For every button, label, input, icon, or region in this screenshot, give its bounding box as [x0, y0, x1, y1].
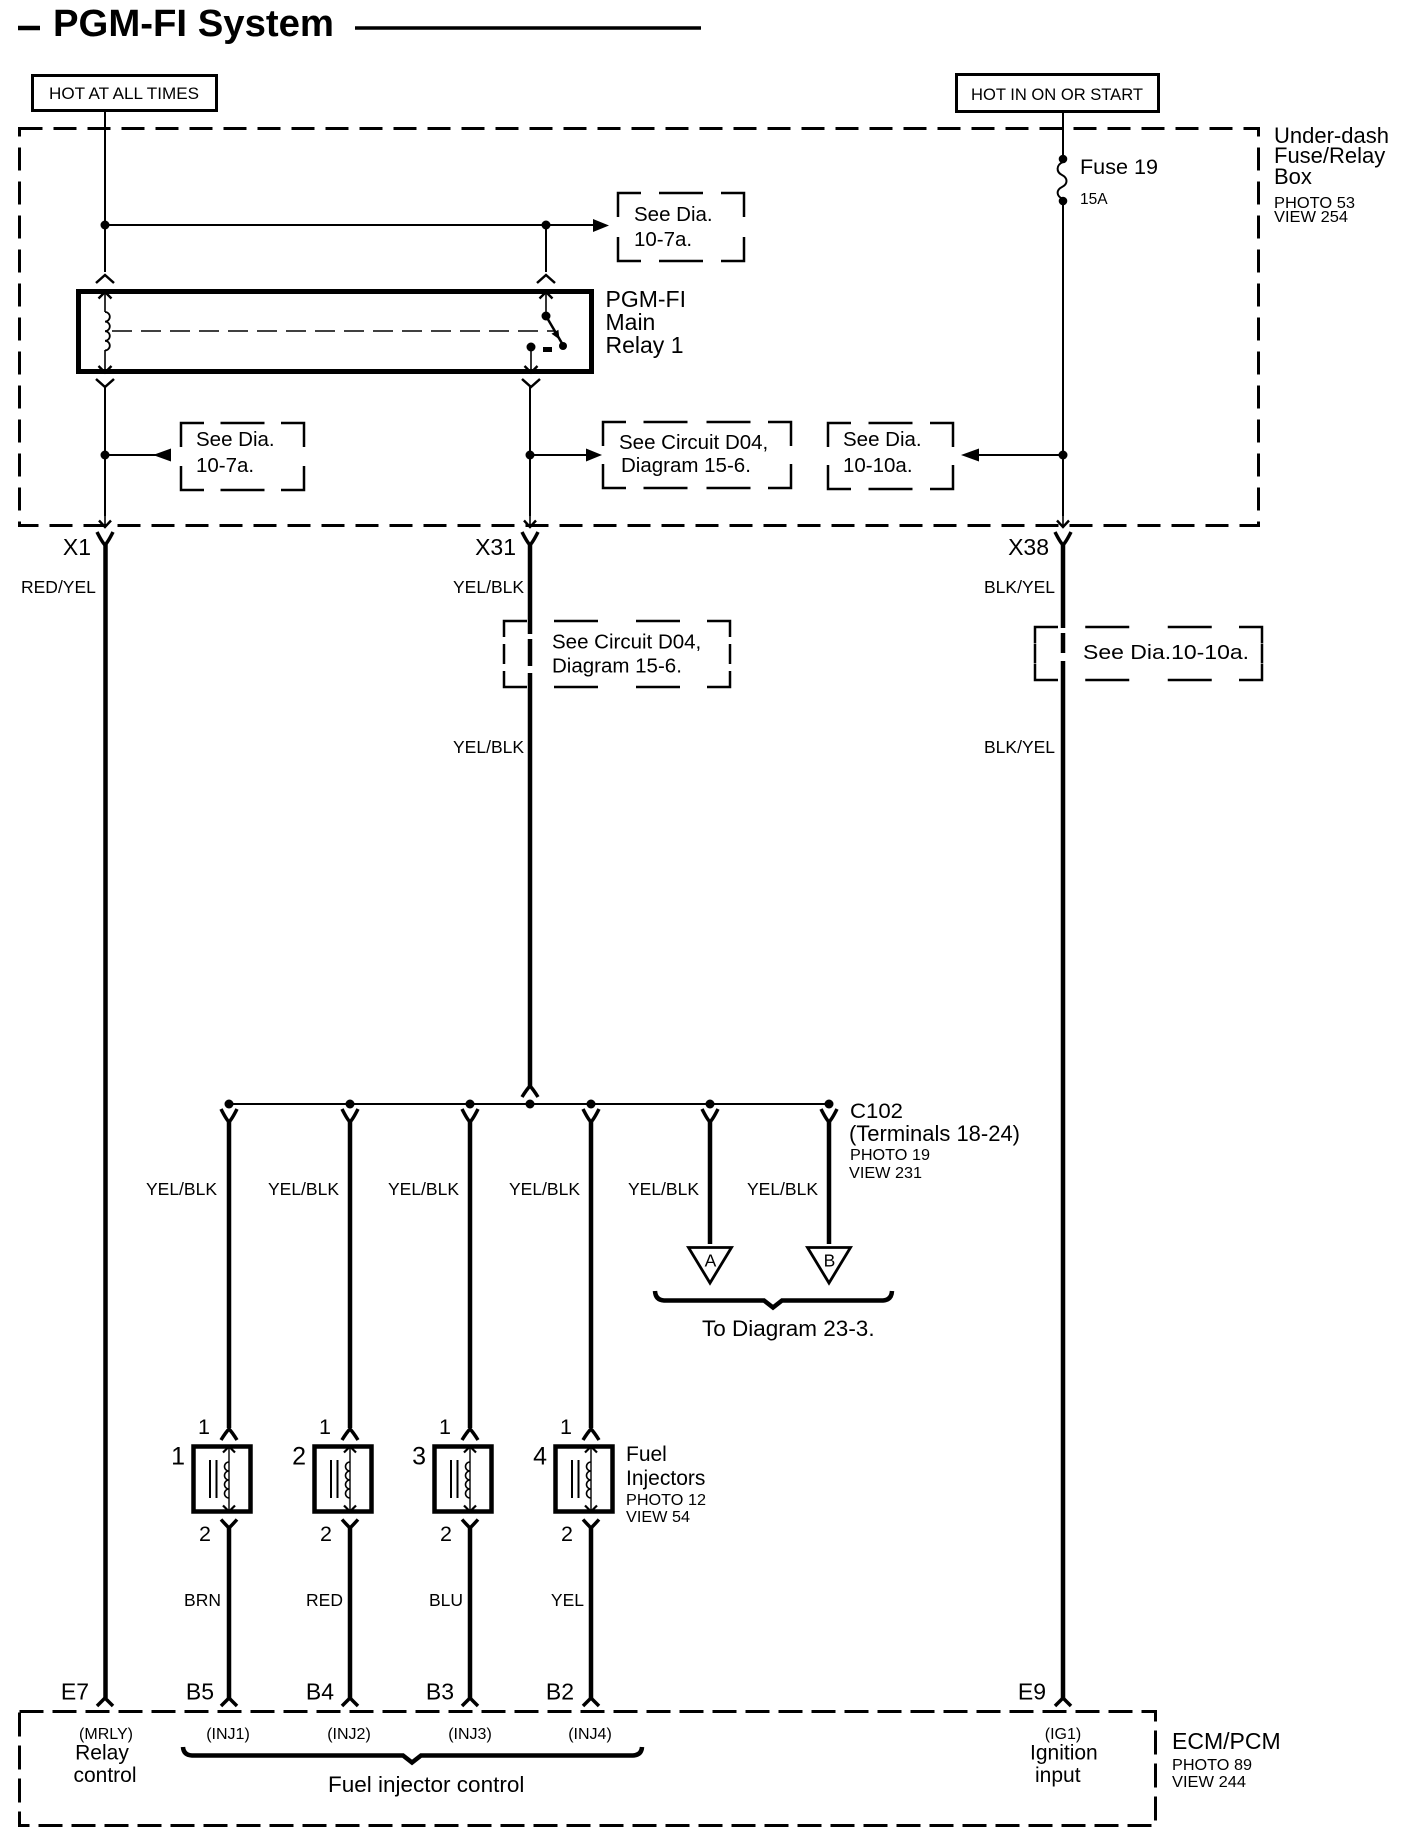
- svg-text:See Circuit D04,: See Circuit D04,: [552, 631, 701, 654]
- wire: YEL/BLK drop at x=470: [468, 1120, 473, 1428]
- svg-text:control: control: [73, 1764, 136, 1787]
- svg-text:2: 2: [292, 1443, 306, 1471]
- label: (IG1) Ignition input: [1030, 1726, 1098, 1787]
- svg-text:See Circuit D04,: See Circuit D04,: [619, 431, 768, 454]
- connector terminal X38 symbol: [1055, 532, 1071, 545]
- svg-text:YEL/BLK: YEL/BLK: [509, 1179, 580, 1199]
- relay switch movable arm: [546, 316, 563, 345]
- label box: HOT IN ON OR START: [957, 75, 1159, 112]
- connector terminal X1 symbol: [97, 532, 113, 545]
- wire: injector 3 output down to ECM: [468, 1526, 473, 1698]
- svg-text:VIEW 231: VIEW 231: [849, 1165, 922, 1182]
- svg-text:3: 3: [412, 1443, 426, 1471]
- wire: X1 trunk RED/YEL down to ECM E7: [103, 543, 108, 1698]
- svg-text:See Dia.: See Dia.: [843, 428, 922, 451]
- svg-text:E9: E9: [1018, 1679, 1046, 1705]
- label: (MRLY) Relay control: [73, 1726, 136, 1787]
- branch wire with arrowhead to See Circuit D04 box: [530, 454, 588, 456]
- wire: YEL/BLK drop at x=829: [827, 1120, 832, 1244]
- svg-text:2: 2: [561, 1522, 573, 1546]
- bus drop connector chevron 5: [702, 1109, 718, 1122]
- svg-text:Box: Box: [1274, 164, 1312, 189]
- svg-text:BLK/YEL: BLK/YEL: [984, 737, 1055, 757]
- svg-text:RED: RED: [306, 1590, 343, 1610]
- svg-text:B2: B2: [546, 1679, 574, 1705]
- svg-text:To Diagram 23-3.: To Diagram 23-3.: [702, 1316, 875, 1341]
- svg-text:(IG1): (IG1): [1045, 1726, 1081, 1743]
- injector 1 coil: [225, 1462, 230, 1498]
- injector 3 top connector chevron (pin 1): [462, 1429, 478, 1440]
- injector 4 coil: [587, 1462, 592, 1498]
- relay outline: PGM-FI Main Relay 1: [79, 292, 592, 372]
- connector chevron above relay coil pin: [96, 275, 114, 283]
- connector C102 chevron at end of X31 trunk: [522, 1086, 538, 1097]
- svg-text:1: 1: [198, 1415, 210, 1439]
- svg-text:X1: X1: [63, 534, 91, 560]
- wire: relay switch to X31 terminal: [529, 387, 531, 516]
- fuel injector 2 body: [315, 1447, 372, 1512]
- wire: horizontal branch y=225 toward See Dia. 10-7a.: [105, 224, 595, 226]
- ECM pin connector chevron at x=229: [221, 1698, 237, 1706]
- branch wire with arrowhead to See Dia. 10-7a. (lower): [105, 454, 171, 456]
- branch wire with arrowhead from X38 to See Dia. 10-10a.: [978, 454, 1063, 456]
- svg-text:Ignition: Ignition: [1030, 1742, 1098, 1765]
- svg-text:(INJ2): (INJ2): [327, 1726, 371, 1743]
- injector 4 top connector chevron (pin 1): [583, 1429, 599, 1440]
- svg-text:YEL/BLK: YEL/BLK: [453, 577, 524, 597]
- label box: HOT AT ALL TIMES: [33, 76, 217, 111]
- ECM pin connector chevron at x=350: [342, 1698, 358, 1706]
- connector terminal X31 symbol: [522, 532, 538, 545]
- svg-text:Fuse 19: Fuse 19: [1080, 155, 1158, 179]
- relay pin arrow bottom-left (open chevron): [104, 350, 106, 373]
- svg-text:VIEW 244: VIEW 244: [1172, 1774, 1246, 1791]
- svg-text:VIEW 254: VIEW 254: [1274, 209, 1348, 226]
- injector 4 internal line with open-chevron arrows: [590, 1446, 592, 1512]
- relay switch fixed contact dot: [527, 343, 536, 352]
- injector supply bus wire: [227, 1103, 830, 1105]
- svg-text:Diagram 15-6.: Diagram 15-6.: [552, 655, 682, 678]
- svg-text:10-7a.: 10-7a.: [196, 454, 254, 477]
- svg-text:RED/YEL: RED/YEL: [21, 577, 96, 597]
- svg-text:E7: E7: [61, 1679, 89, 1705]
- bus junction dot 3: [466, 1100, 475, 1109]
- arrowhead X1 crossing fuse-box border (open chevron): [104, 516, 106, 527]
- relay switch wire to bottom pin (open chevron arrow): [530, 349, 532, 373]
- connector chevron above relay switch pin: [537, 275, 555, 283]
- wire: drop to relay switch pin: [545, 225, 547, 272]
- fuse 19 bottom terminal dot: [1059, 197, 1068, 206]
- svg-text:Fuel: Fuel: [626, 1443, 667, 1466]
- wire: X38 dash inside see-box: [1061, 633, 1066, 653]
- label: ECM/PCM PHOTO 89 VIEW 244: [1172, 1728, 1281, 1791]
- svg-text:C102: C102: [850, 1099, 903, 1123]
- wire: YEL/BLK drop at x=229: [227, 1120, 232, 1428]
- injector 3 bottom connector chevron (pin 2): [462, 1520, 478, 1529]
- svg-text:YEL/BLK: YEL/BLK: [268, 1179, 339, 1199]
- svg-text:See Dia.: See Dia.: [634, 203, 713, 226]
- relay coil: [105, 312, 110, 350]
- title dash: [18, 26, 40, 31]
- svg-text:2: 2: [320, 1522, 332, 1546]
- injector 1 bottom connector chevron (pin 2): [221, 1520, 237, 1529]
- wire: YEL/BLK drop at x=710: [708, 1120, 713, 1244]
- label: Fuse 19 15A: [1080, 155, 1158, 208]
- svg-text:(Terminals 18-24): (Terminals 18-24): [849, 1121, 1020, 1146]
- bus drop connector chevron 2: [342, 1109, 358, 1122]
- ECM pin connector chevron at x=1063: [1055, 1698, 1071, 1706]
- ECM pin connector chevron at x=105: [97, 1698, 113, 1706]
- wire: injector 1 output down to ECM: [227, 1526, 232, 1698]
- junction dot (546,225): [542, 221, 551, 230]
- ECM/PCM dashed enclosure: [20, 1712, 1156, 1826]
- bus drop connector chevron 1: [221, 1109, 237, 1122]
- injector 4 pintle bars: [571, 1460, 573, 1498]
- relay switch arm tip dot: [559, 342, 567, 350]
- injector 3 coil: [466, 1462, 471, 1498]
- injector 2 coil: [346, 1462, 351, 1498]
- svg-text:B4: B4: [306, 1679, 334, 1705]
- svg-text:YEL/BLK: YEL/BLK: [453, 737, 524, 757]
- fuel injector 1 body: [194, 1447, 251, 1512]
- injector 2 bottom connector chevron (pin 2): [342, 1520, 358, 1529]
- junction dot (1063,455): [1059, 451, 1068, 460]
- arrowhead to See Dia. 10-7a. box: [593, 219, 609, 232]
- wire: X38 trunk continues to ECM E9: [1061, 661, 1066, 1698]
- svg-text:B5: B5: [186, 1679, 214, 1705]
- wire: battery feed from HOT AT ALL TIMES to relay coil: [104, 111, 106, 272]
- svg-text:Diagram 15-6.: Diagram 15-6.: [621, 454, 751, 477]
- bus junction dot 4: [587, 1100, 596, 1109]
- svg-text:Relay: Relay: [75, 1742, 129, 1765]
- svg-text:1: 1: [319, 1415, 331, 1439]
- svg-text:See Dia.10-10a.: See Dia.10-10a.: [1083, 641, 1249, 664]
- label: Under-dash Fuse/Relay Box: [1274, 123, 1389, 226]
- svg-text:YEL/BLK: YEL/BLK: [388, 1179, 459, 1199]
- svg-text:10-10a.: 10-10a.: [843, 454, 913, 477]
- injector 1 pintle bars: [209, 1460, 211, 1498]
- wire: relay coil to X1 terminal: [104, 387, 106, 516]
- wire: X31 trunk continues to injector bus: [528, 673, 533, 1086]
- wire: injector 2 output down to ECM: [348, 1526, 353, 1698]
- svg-text:(INJ3): (INJ3): [448, 1726, 492, 1743]
- wire: injector 4 output down to ECM: [589, 1526, 594, 1698]
- svg-text:YEL/BLK: YEL/BLK: [146, 1179, 217, 1199]
- svg-text:X31: X31: [475, 534, 516, 560]
- brace under connectors A and B: [655, 1291, 892, 1308]
- svg-text:Injectors: Injectors: [626, 1467, 705, 1490]
- label: Fuel Injectors PHOTO 12 VIEW 54: [626, 1443, 706, 1526]
- brace: fuel injector control group: [183, 1747, 642, 1763]
- bus junction dot 5: [706, 1100, 715, 1109]
- see-box: See Circuit D04, Diagram15-6. (upper): [603, 422, 791, 488]
- svg-text:VIEW 54: VIEW 54: [626, 1509, 690, 1526]
- svg-text:X38: X38: [1008, 534, 1049, 560]
- bus junction dot 6: [825, 1100, 834, 1109]
- injector 1 top connector chevron (pin 1): [221, 1429, 237, 1440]
- svg-text:BRN: BRN: [184, 1590, 221, 1610]
- injector 1 internal line with open-chevron arrows: [228, 1446, 230, 1512]
- connector chevron below relay coil pin: [96, 379, 114, 387]
- bus drop connector chevron 3: [462, 1109, 478, 1122]
- label: PGM-FI Main Relay 1: [606, 286, 687, 358]
- injector 2 internal line with open-chevron arrows: [349, 1446, 351, 1512]
- injector 4 bottom connector chevron (pin 2): [583, 1520, 599, 1529]
- relay pin arrow top-left (open chevron): [104, 292, 106, 312]
- fuel injector 3 body: [435, 1447, 492, 1512]
- svg-text:BLK/YEL: BLK/YEL: [984, 577, 1055, 597]
- see-box: See Circuit D04, Diagram15-6. (interrupting X31 wire): [504, 621, 730, 687]
- off-page connector A (triangle): [689, 1248, 732, 1284]
- wire: YEL/BLK drop at x=591: [589, 1120, 594, 1428]
- svg-text:(INJ4): (INJ4): [568, 1726, 612, 1743]
- svg-text:YEL/BLK: YEL/BLK: [747, 1179, 818, 1199]
- bus drop connector chevron 6: [821, 1109, 837, 1122]
- svg-text:PGM-FI System: PGM-FI System: [53, 3, 334, 45]
- svg-text:PHOTO 19: PHOTO 19: [850, 1147, 930, 1164]
- bus junction dot 1: [225, 1100, 234, 1109]
- svg-text:B3: B3: [426, 1679, 454, 1705]
- svg-text:input: input: [1035, 1764, 1081, 1787]
- svg-text:Relay 1: Relay 1: [606, 332, 684, 358]
- wire: HOT IN ON OR START down to fuse 19: [1062, 111, 1064, 160]
- bus junction dot X31 feed: [526, 1100, 535, 1109]
- wire: X31 dash inside see-box: [528, 639, 533, 666]
- svg-text:2: 2: [199, 1522, 211, 1546]
- svg-text:2: 2: [440, 1522, 452, 1546]
- svg-text:YEL: YEL: [551, 1590, 584, 1610]
- svg-text:HOT AT ALL TIMES: HOT AT ALL TIMES: [49, 85, 199, 103]
- wire: X38 trunk BLK/YEL upper segment: [1061, 543, 1066, 628]
- off-page connector B (triangle): [808, 1248, 851, 1284]
- arrowhead X31 crossing fuse-box border (open chevron): [529, 516, 531, 527]
- relay switch pivot dot: [542, 312, 551, 321]
- injector 3 internal line with open-chevron arrows: [469, 1446, 471, 1512]
- svg-text:PHOTO 12: PHOTO 12: [626, 1492, 706, 1509]
- ECM pin connector chevron at x=591: [583, 1698, 599, 1706]
- svg-text:PHOTO 89: PHOTO 89: [1172, 1757, 1252, 1774]
- relay switch dashed gap segment: [543, 347, 552, 352]
- junction dot (105,455): [101, 451, 110, 460]
- fuse 19 element: [1058, 162, 1067, 199]
- see-box: See Dia.10-10a. (interrupting X38 wire): [1035, 627, 1262, 680]
- svg-text:1: 1: [171, 1443, 185, 1471]
- svg-text:15A: 15A: [1080, 191, 1108, 208]
- svg-text:ECM/PCM: ECM/PCM: [1172, 1728, 1281, 1754]
- relay actuation dashed line: [112, 330, 554, 332]
- svg-text:(INJ1): (INJ1): [206, 1726, 250, 1743]
- see-box: See Dia. 10-10a. (upper): [828, 423, 953, 489]
- bus drop connector chevron 4: [583, 1109, 599, 1122]
- svg-text:B: B: [824, 1251, 836, 1271]
- svg-text:1: 1: [560, 1415, 572, 1439]
- fuel injector 4 body: [556, 1447, 613, 1512]
- svg-text:4: 4: [533, 1443, 547, 1471]
- title rule: [355, 26, 701, 30]
- see-box: See Dia. 10-7a. (lower): [181, 423, 304, 490]
- wire: YEL/BLK drop at x=350: [348, 1120, 353, 1428]
- label: C102 (Terminals 18-24) PHOTO 19 VIEW 231: [849, 1099, 1020, 1182]
- arrowhead X38 crossing fuse-box border (open chevron): [1062, 516, 1064, 527]
- svg-text:See Dia.: See Dia.: [196, 428, 275, 451]
- junction dot (530,455): [526, 451, 535, 460]
- svg-text:YEL/BLK: YEL/BLK: [628, 1179, 699, 1199]
- injector 2 top connector chevron (pin 1): [342, 1429, 358, 1440]
- fuse 19 top terminal dot: [1059, 155, 1068, 164]
- svg-text:HOT IN ON OR START: HOT IN ON OR START: [971, 86, 1143, 104]
- injector 2 pintle bars: [330, 1460, 332, 1498]
- wire: fuse 19 to X38 terminal: [1062, 201, 1064, 516]
- svg-text:BLU: BLU: [429, 1590, 463, 1610]
- see-box: See Dia. 10-7a. (top): [618, 193, 744, 261]
- ECM pin connector chevron at x=470: [462, 1698, 478, 1706]
- relay switch wire from top pin (open chevron arrow): [545, 292, 547, 314]
- svg-text:10-7a.: 10-7a.: [634, 228, 692, 251]
- svg-text:Fuel injector control: Fuel injector control: [328, 1772, 524, 1797]
- connector chevron below relay switch pin: [522, 379, 540, 387]
- junction dot (105,225): [101, 221, 110, 230]
- bus junction dot 2: [346, 1100, 355, 1109]
- injector 3 pintle bars: [450, 1460, 452, 1498]
- svg-text:1: 1: [439, 1415, 451, 1439]
- wire: X31 trunk YEL/BLK upper segment: [528, 543, 533, 634]
- svg-text:(MRLY): (MRLY): [79, 1726, 133, 1743]
- under-dash fuse/relay box dashed enclosure: [20, 129, 1259, 526]
- svg-text:A: A: [705, 1251, 717, 1271]
